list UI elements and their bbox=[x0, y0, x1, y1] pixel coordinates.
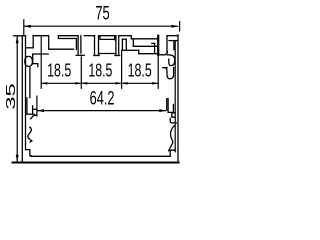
left lip U bbox=[26, 98, 28, 114]
wire: bottom-right step bbox=[170, 150, 175, 156]
dim 75 line bbox=[24, 25, 179, 27]
slot E walls bbox=[94, 36, 96, 55]
slot G walls bbox=[115, 36, 117, 55]
shelf under-line (x59-76) bbox=[58, 36, 76, 39]
deep slot C1 walls bbox=[75, 39, 77, 50]
64.2 ext right bbox=[166, 98, 168, 111]
arrowhead 64.2 right bbox=[159, 109, 166, 112]
label 35 (rotated) bbox=[4, 83, 18, 110]
wire: bottom plate mid top bbox=[31, 155, 170, 157]
left screw boss ring bbox=[25, 56, 33, 66]
svg-text:35: 35 bbox=[4, 83, 18, 110]
svg-text:75: 75 bbox=[95, 2, 109, 24]
wire: bottom-left step bbox=[26, 150, 32, 156]
thick wall W at x158 bbox=[157, 36, 159, 55]
dim 35 line bbox=[16, 36, 18, 161]
wire: bottom outer edge bbox=[13, 162, 179, 164]
arrowhead 75 right bbox=[171, 25, 178, 28]
separator 3 bbox=[121, 51, 123, 89]
arrowhead 75 left bbox=[24, 25, 31, 28]
label 18.5 #1 bbox=[47, 61, 71, 81]
separator 1 bbox=[40, 36, 42, 89]
arrowheads 18.5 row bbox=[41, 82, 47, 85]
svg-text:18.5: 18.5 bbox=[47, 61, 71, 81]
hook near x154 bbox=[154, 43, 156, 53]
label 75 bbox=[95, 2, 109, 24]
svg-text:64.2: 64.2 bbox=[90, 88, 115, 109]
right shelf bbox=[173, 112, 175, 114]
last wide slot J bottom bbox=[158, 52, 167, 55]
dim 75 ext left bbox=[23, 19, 25, 36]
arrowhead 35 bottom bbox=[16, 155, 19, 162]
label 64.2 bbox=[90, 88, 115, 109]
left inner wall bbox=[25, 36, 27, 150]
left shelf bbox=[33, 108, 37, 110]
right spring clip bbox=[169, 126, 175, 151]
dimension graphics bbox=[17, 19, 179, 161]
slot A1 bottom and right wall bbox=[26, 47, 34, 49]
right under-step bbox=[172, 113, 175, 117]
svg-text:18.5: 18.5 bbox=[88, 61, 112, 81]
wire: outer right wall bbox=[177, 35, 179, 163]
right hook K2 bbox=[164, 67, 174, 78]
64.2 ext left bbox=[36, 96, 38, 117]
wire: outer left wall bbox=[21, 36, 23, 163]
wire: top surface segments bbox=[14, 35, 25, 37]
I unit wide shelf bbox=[130, 36, 132, 39]
arrowhead 35 top bbox=[16, 36, 19, 43]
separator 2 bbox=[80, 56, 82, 89]
right top flange bbox=[169, 40, 177, 42]
right lip U bbox=[167, 99, 169, 112]
arrowhead 64.2 left bbox=[37, 109, 44, 112]
right under-hook bbox=[170, 118, 176, 123]
right hook K1 bbox=[167, 55, 174, 66]
slot B1 wall and floor channel bbox=[48, 36, 50, 49]
dim 18.5 line bbox=[41, 82, 158, 84]
boss tail bbox=[29, 67, 31, 98]
label 18.5 #3 bbox=[128, 61, 152, 81]
right hook K2 left arm bbox=[163, 67, 167, 69]
dim 75 ext right bbox=[179, 21, 181, 32]
ceiling line bbox=[33, 53, 49, 55]
dim 64.2 line bbox=[37, 110, 166, 112]
boss stem bbox=[32, 55, 34, 64]
left spring clip bbox=[28, 127, 32, 142]
label 18.5 #2 bbox=[88, 61, 112, 81]
separator 4 bbox=[157, 56, 159, 89]
right inner wall bbox=[174, 41, 176, 152]
box slot H bbox=[121, 39, 123, 50]
boss bottom ledge bbox=[33, 64, 38, 67]
flange under S5 bbox=[100, 36, 114, 40]
svg-text:18.5: 18.5 bbox=[128, 61, 152, 81]
